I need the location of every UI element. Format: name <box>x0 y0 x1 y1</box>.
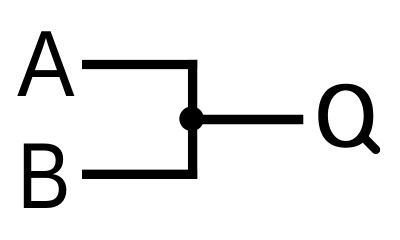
vertical wire joining A and B branches <box>188 60 197 179</box>
output label Q (tail) <box>362 135 376 150</box>
svg-text:B: B <box>17 124 70 229</box>
output wire to Q <box>192 115 303 125</box>
output label Q (tail tip) <box>371 145 380 154</box>
output label Q (bowl) <box>318 84 373 148</box>
svg-text:A: A <box>17 12 74 117</box>
junction node dot <box>179 107 204 132</box>
wire from B to corner <box>82 170 197 179</box>
wire from A to corner <box>82 60 197 69</box>
